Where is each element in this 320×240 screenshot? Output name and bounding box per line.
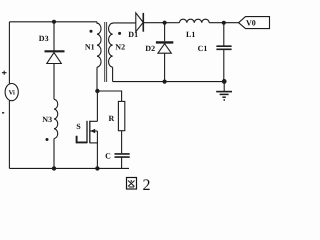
transistor Q/S gate lead — [77, 136, 87, 143]
transistor source stub — [90, 142, 98, 144]
caption: hanzi TU (figure) drawn — [127, 178, 137, 190]
transformer core lines — [105, 22, 107, 82]
inductor L1 — [179, 19, 209, 23]
source V1 circle — [5, 84, 18, 101]
wire: C1 to secondary bottom rail — [223, 49, 225, 81]
node: junction dot D3/N3 branch at bottom rail — [52, 166, 56, 170]
wire: C1 branch upper — [223, 23, 225, 46]
wire: source to bottom rail — [96, 131, 98, 168]
node: N3 polarity dot — [46, 138, 49, 141]
svg-text:D3: D3 — [39, 34, 49, 43]
diode D3 triangle — [47, 53, 62, 64]
wire: D1 cathode to node — [143, 22, 164, 24]
svg-text:V0: V0 — [246, 19, 256, 28]
svg-text:R: R — [109, 114, 115, 123]
transformer winding N1 — [97, 22, 101, 67]
wire: secondary top from N2 to D1 — [113, 22, 136, 24]
node: junction dot L1/C1 — [222, 21, 226, 25]
node: junction dot top of D3 branch — [52, 20, 56, 24]
wire: left rail upper — [8, 22, 10, 84]
wire: D2 branch upper — [164, 23, 166, 42]
wire: node to L1 — [165, 22, 180, 24]
source V1 plus sign — [2, 71, 7, 75]
ground symbol — [216, 91, 232, 93]
wire: L1 to V0 flag — [209, 22, 238, 24]
transistor gate bar — [86, 121, 88, 143]
node: junction dot source at bottom rail — [95, 166, 99, 170]
diode D2 triangle — [158, 44, 171, 54]
svg-text:C1: C1 — [198, 44, 208, 53]
node: N1 polarity dot — [90, 30, 93, 33]
wire: bottom rail — [9, 167, 129, 169]
transistor body stub with arrow — [90, 130, 98, 132]
svg-text:N2: N2 — [115, 42, 125, 51]
wire: D3 branch upper — [53, 22, 55, 51]
resistor R body — [118, 101, 124, 130]
svg-text:Vi: Vi — [9, 90, 15, 97]
transistor drain stub — [90, 91, 98, 121]
svg-text:D1: D1 — [128, 30, 138, 39]
node: junction dot at ground corner — [222, 79, 227, 84]
wire: N1 bottom lead — [96, 67, 98, 91]
wire: left rail lower — [8, 101, 10, 169]
wire: D2 to secondary bottom rail — [164, 53, 166, 81]
svg-text:C: C — [105, 151, 111, 160]
capacitor C1 plates — [216, 46, 231, 49]
node: N2 polarity dot — [118, 32, 121, 35]
svg-text:D2: D2 — [145, 44, 155, 53]
svg-text:N1: N1 — [85, 43, 95, 52]
net flag V0 — [239, 17, 270, 29]
node: junction dot D1/D2/L1 — [163, 21, 167, 25]
svg-text:2: 2 — [143, 177, 151, 194]
transistor channel bar — [89, 121, 91, 143]
diode D3 cathode bar — [45, 50, 65, 52]
wire: N3 to bottom rail — [53, 139, 55, 169]
winding N3 — [54, 99, 58, 138]
diode D1 cathode bar — [142, 13, 144, 32]
wire: secondary bottom rail — [113, 81, 225, 83]
diode D2 cathode bar — [156, 41, 173, 43]
svg-text:S: S — [76, 122, 81, 131]
source V1 minus sign — [2, 112, 4, 114]
node: junction dot N1 bottom / drain node — [95, 89, 99, 93]
wire: drain node to R — [97, 91, 121, 101]
wire: R to C — [121, 131, 123, 154]
transformer winding N2 — [109, 23, 113, 67]
diode D1 triangle — [136, 13, 143, 32]
wire: N2 bottom lead — [112, 67, 114, 81]
wire: C to bottom rail — [121, 157, 123, 168]
capacitor C plates — [115, 154, 130, 157]
svg-text:L1: L1 — [186, 30, 195, 39]
wire: D3 to N3 — [53, 64, 55, 100]
wire: ground stem — [223, 81, 225, 91]
node: junction dot D2 at bottom rail — [163, 80, 167, 84]
wire: primary top rail — [9, 21, 97, 23]
svg-text:N3: N3 — [42, 115, 52, 124]
